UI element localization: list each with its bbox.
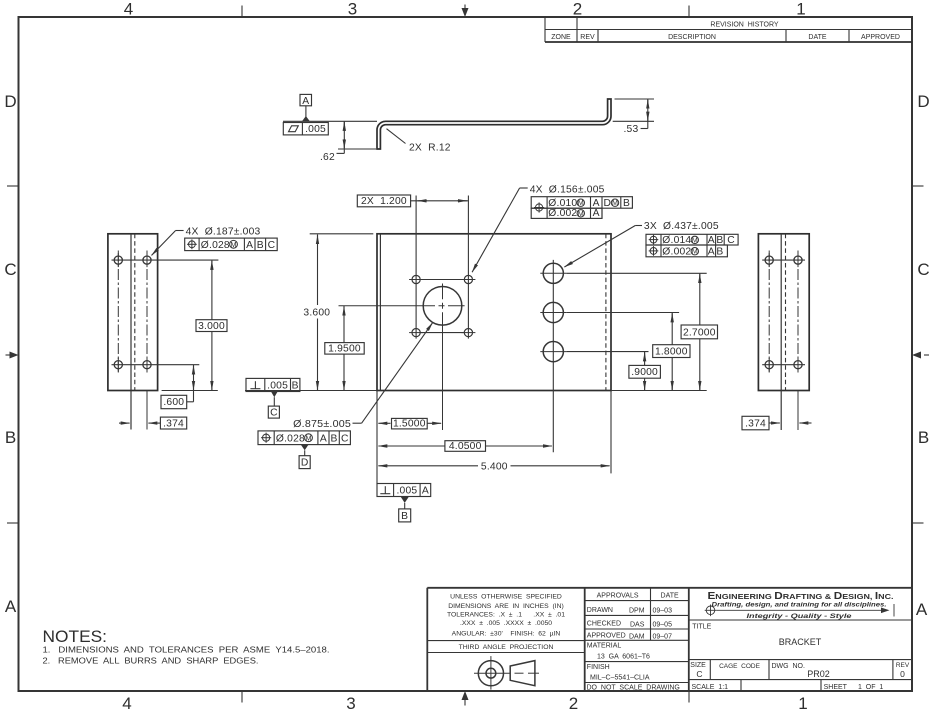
svg-text:09–07: 09–07 [653,633,673,640]
perpendicularity FCF .005 A (datum B) [377,484,431,522]
logo arrow decoration [705,604,894,617]
zone tick right B/A [912,522,924,524]
svg-text:D: D [301,458,309,469]
svg-text:M: M [231,240,237,249]
position FCF Ø.028(M) A B C [185,238,278,251]
left view hidden bend line [134,234,136,391]
svg-text:A: A [5,597,17,616]
right view hole centerline right column [797,251,799,375]
svg-text:2: 2 [573,0,582,19]
zone numbers top [124,0,806,19]
svg-text:A: A [708,235,715,246]
svg-text:NOTES:: NOTES: [43,627,108,646]
svg-text:TOLERANCES: .X ± .1 .X: TOLERANCES: .X ± .1 .XX ± .01 [447,612,565,619]
svg-text:Ø.002: Ø.002 [662,246,691,257]
svg-text:0: 0 [900,669,905,679]
svg-text:A: A [320,434,327,445]
svg-text:CHECKED: CHECKED [587,621,621,628]
svg-text:3.000: 3.000 [198,321,225,332]
svg-text:.53: .53 [624,124,639,135]
zone tick bottom 4/3 [241,691,243,703]
perpendicularity FCF .005 B (datum C) [246,378,300,418]
center mark arrow top [462,5,469,18]
dimension .53 [613,99,654,135]
svg-text:Ø.010: Ø.010 [548,198,577,209]
svg-text:C: C [917,260,929,279]
hole row extension lines right [566,272,706,274]
svg-text:4: 4 [122,694,131,710]
svg-text:SIZE: SIZE [690,662,706,669]
svg-text:DAS: DAS [630,621,645,628]
title block grid [427,588,912,691]
svg-text:THIRD ANGLE PROJECTION: THIRD ANGLE PROJECTION [459,644,554,651]
dimension 1.8000 [653,313,690,391]
svg-text:Drafting, design, and training: Drafting, design, and training for all d… [712,603,887,609]
svg-text:2.7000: 2.7000 [683,327,716,338]
svg-text:MIL–C–5541–CLIA: MIL–C–5541–CLIA [590,675,650,682]
svg-text:.9000: .9000 [631,367,658,378]
left view bottom extension line [162,390,218,392]
top profile view of bent sheet [377,99,611,149]
svg-text:09–05: 09–05 [653,621,673,628]
dimension 4.0500 [378,441,552,452]
approvals block text [587,592,680,691]
svg-text:B: B [716,235,723,246]
svg-text:APPROVED: APPROVED [861,34,900,41]
svg-text:Ø.028: Ø.028 [201,240,230,251]
position FCF Ø.014(M) A B C / Ø.002(M) A B [646,234,738,257]
svg-text:4: 4 [124,0,133,19]
left view inner edge line [130,234,132,430]
dimension .374 left view [119,417,187,429]
svg-text:C: C [4,260,16,279]
svg-text:09–03: 09–03 [653,608,673,615]
svg-text:ENGINEERING DRAFTING & DESIGN,: ENGINEERING DRAFTING & DESIGN, INC. [708,591,894,602]
svg-text:4X Ø.187±.003: 4X Ø.187±.003 [186,227,261,238]
dimension 2X 1.200 [357,195,468,207]
svg-text:SHEET: SHEET [824,684,848,691]
svg-text:B: B [257,240,264,251]
svg-text:A: A [708,246,715,257]
zone tick top 2/1 [688,6,690,18]
svg-text:PR02: PR02 [807,669,830,679]
svg-text:C: C [270,407,278,418]
right side view outline [758,234,809,391]
svg-text:5.400: 5.400 [481,461,508,472]
svg-text:DATE: DATE [661,592,679,599]
extension line from sheet top to datum A [283,120,377,122]
dimension 1.9500 [325,306,364,391]
small hole pair connect lines [421,279,465,281]
svg-text:4.0500: 4.0500 [449,441,482,452]
svg-text:D: D [917,92,929,111]
title text [690,623,910,691]
svg-text:UNLESS OTHERWISE SPECIFIED: UNLESS OTHERWISE SPECIFIED [450,594,562,601]
bottom edge extension right [611,390,707,392]
svg-text:B: B [292,381,299,392]
zone letters right [916,92,930,619]
zone tick bottom 2/1 [688,691,690,703]
svg-text:Integrity - Quality - Style: Integrity - Quality - Style [747,614,853,620]
svg-text:2. REMOVE ALL BURRS AND: 2. REMOVE ALL BURRS AND SHARP EDGES. [43,656,259,666]
notes [43,627,330,666]
svg-text:A: A [593,198,600,209]
svg-text:Ø.002: Ø.002 [548,208,577,219]
front view bend tangent line left [379,234,381,391]
svg-text:B: B [401,511,408,522]
dimension 5.400 [378,461,609,472]
svg-text:REVISION HISTORY: REVISION HISTORY [710,22,779,29]
right view hole centerline left column [768,251,770,375]
third angle projection symbol [474,656,539,690]
svg-text:M: M [578,198,584,207]
callout Ø.875±.005 [293,323,433,431]
svg-text:1.9500: 1.9500 [328,344,361,355]
left view holes 4X Ø.187 [114,256,151,369]
svg-text:3: 3 [348,0,357,19]
svg-text:DWG NO.: DWG NO. [772,663,805,670]
revision history table [545,17,912,42]
svg-text:C: C [341,434,349,445]
svg-text:A: A [246,240,253,251]
svg-text:1: 1 [798,694,807,710]
svg-text:Ø.014: Ø.014 [662,235,691,246]
svg-text:REV: REV [896,662,910,669]
zone numbers bottom [122,694,807,710]
left view hole centerline left column [117,251,119,375]
callout 3X Ø.437±.005 [564,221,718,267]
left view hole row line top [112,259,219,261]
svg-text:1: 1 [796,0,805,19]
svg-text:A: A [302,96,309,107]
dimension .9000 [629,352,661,391]
svg-text:.600: .600 [163,397,184,408]
3X holes Ø.437 column [552,260,554,452]
zone tick left D/C [7,185,19,187]
svg-text:M: M [306,433,312,442]
svg-text:.374: .374 [745,418,766,429]
svg-text:ANGULAR: ±30' FINISH: 62: ANGULAR: ±30' FINISH: 62 µIN [452,631,561,638]
svg-text:.005: .005 [267,381,288,392]
composite position FCF Ø.010(M) A D(M) B / Ø.002(M) A [531,197,632,220]
svg-text:A: A [422,486,429,497]
svg-text:DESCRIPTION: DESCRIPTION [668,34,716,41]
svg-text:3X Ø.437±.005: 3X Ø.437±.005 [644,221,719,232]
svg-text:C: C [268,240,276,251]
svg-text:M: M [692,247,698,256]
svg-text:B: B [716,246,723,257]
svg-text:CAGE CODE: CAGE CODE [719,663,760,670]
right view hidden bend line [785,234,787,391]
svg-text:B: B [623,198,630,209]
svg-text:M: M [612,198,618,207]
svg-text:M: M [578,209,584,218]
bottom edge extension left [245,390,377,392]
svg-text:3: 3 [346,694,355,710]
center mark arrow right [912,352,929,359]
svg-text:D: D [604,198,612,209]
right view holes 4X Ø.187 [765,256,802,369]
front view outline [377,234,611,391]
svg-text:Ø.875±.005: Ø.875±.005 [293,419,351,430]
svg-text:DIMENSIONS ARE IN INCHES (: DIMENSIONS ARE IN INCHES (IN) [448,603,564,610]
svg-text:ZONE: ZONE [551,34,571,41]
right edge extension below [610,391,612,474]
svg-text:D: D [4,92,16,111]
center mark arrow left [6,352,19,359]
front view hidden bend line right [605,234,607,391]
svg-text:FINISH: FINISH [587,664,610,671]
left view hole centerline right column [146,251,148,375]
svg-text:DRAWN: DRAWN [587,607,613,614]
svg-text:M: M [692,235,698,244]
callout 4X Ø.187±.003 [152,227,261,256]
svg-text:Ø.028: Ø.028 [276,434,305,445]
position FCF Ø.028(M) A B C (big hole, datum D) [258,431,350,469]
svg-text:.005: .005 [396,486,417,497]
svg-text:1 OF 1: 1 OF 1 [858,684,883,691]
svg-text:.005: .005 [305,124,326,135]
dimension 3.600 [303,234,373,391]
svg-text:1.8000: 1.8000 [655,347,688,358]
svg-text:1. DIMENSIONS AND TOLERANC: 1. DIMENSIONS AND TOLERANCES PER ASME Y1… [43,645,330,655]
svg-text:APPROVALS: APPROVALS [597,592,639,599]
zone tick right D/C [912,185,924,187]
leader 2X R.12 [387,129,451,154]
dimension 3.000 [196,260,227,390]
callout 4X Ø.156±.005 [472,184,605,272]
big hole horizontal centerline [339,305,465,307]
svg-text:.62: .62 [320,152,335,163]
dimension 2.7000 [681,273,717,390]
right view hole row lines [762,259,805,261]
4X small holes Ø.156 [412,275,473,336]
zone letters left [4,92,16,616]
svg-text:A: A [593,208,600,219]
small hole column extension lines [415,196,417,339]
left edge extension below [376,391,378,484]
svg-text:2X R.12: 2X R.12 [409,142,451,153]
tolerance notes text [447,594,565,652]
big hole vertical centerline [442,284,444,431]
flatness feature control frame .005 [283,123,328,136]
svg-text:B: B [918,428,929,447]
company logo block [708,591,894,620]
svg-text:A: A [916,600,928,619]
dimension 1.5000 [378,418,441,429]
svg-text:.374: .374 [163,418,184,429]
center mark arrow bottom [462,691,469,706]
svg-text:3.600: 3.600 [303,307,330,318]
right view inner edge line [780,234,782,430]
svg-text:DO NOT SCALE DRAWING: DO NOT SCALE DRAWING [587,684,680,691]
left side view outline [108,234,158,391]
zone tick left B/A [7,522,19,524]
svg-text:1.5000: 1.5000 [393,419,426,430]
svg-text:APPROVED: APPROVED [587,633,626,640]
svg-text:2X 1.200: 2X 1.200 [361,196,407,207]
svg-text:MATERIAL: MATERIAL [587,642,622,649]
svg-text:B: B [331,434,338,445]
svg-text:13 GA 6061–T6: 13 GA 6061–T6 [597,654,650,661]
svg-text:BRACKET: BRACKET [779,637,822,647]
svg-text:.XXX ± .005 .XXXX ± .0050: .XXX ± .005 .XXXX ± .0050 [460,620,552,627]
dimension .374 right view [742,416,812,430]
datum A symbol [300,94,312,121]
dimension .62 [320,121,376,163]
svg-text:REV: REV [580,34,595,41]
dimension .600 [161,365,194,409]
svg-text:DAM: DAM [629,633,645,640]
left view hole row line bottom [112,364,200,366]
svg-text:2: 2 [569,694,578,710]
zone tick top 4/3 [241,6,243,18]
svg-text:4X Ø.156±.005: 4X Ø.156±.005 [530,184,605,195]
big hole Ø.875 [423,287,462,326]
svg-text:DPM: DPM [629,608,645,615]
svg-text:B: B [5,428,16,447]
svg-text:TITLE: TITLE [692,623,711,630]
svg-text:SCALE 1:1: SCALE 1:1 [692,684,729,691]
svg-text:DATE: DATE [808,34,826,41]
svg-text:C: C [696,669,702,679]
svg-text:C: C [727,235,735,246]
